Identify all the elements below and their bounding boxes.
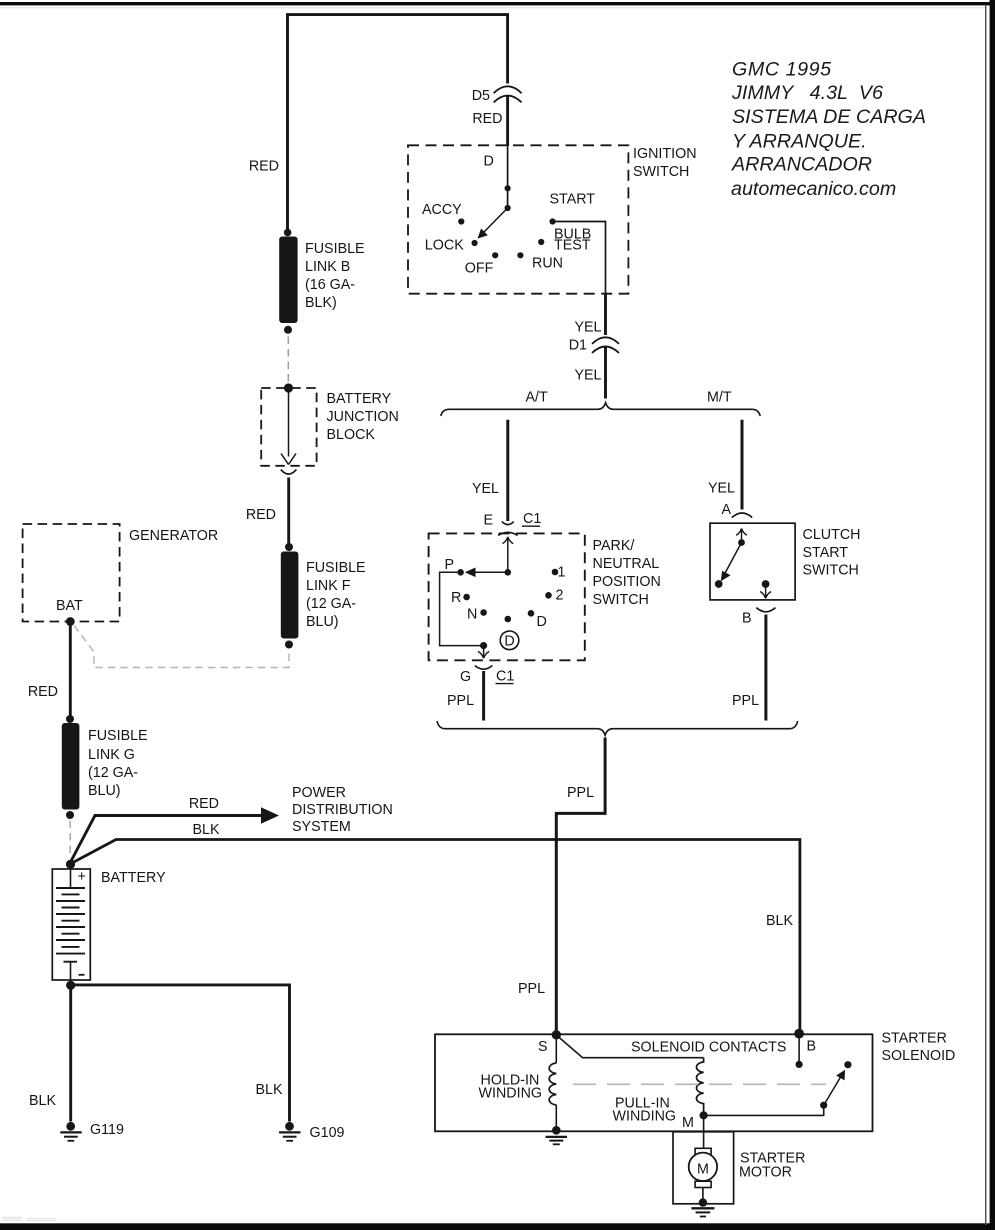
svg-text:YEL: YEL xyxy=(472,481,499,497)
svg-text:PPL: PPL xyxy=(567,785,594,801)
wire: feed inside ignition switch xyxy=(507,146,509,208)
svg-text:BLK): BLK) xyxy=(305,295,337,311)
wire: P contact to output xyxy=(440,572,484,645)
label BATTERY JUNCTION BLOCK xyxy=(327,391,399,443)
label FUSIBLE LINK G (12 GA-BLU) xyxy=(88,728,148,799)
svg-text:POWER: POWER xyxy=(292,785,346,801)
svg-text:G109: G109 xyxy=(310,1125,345,1141)
contact ACCY xyxy=(458,218,464,224)
svg-text:A/T: A/T xyxy=(526,390,549,406)
connector D5 (inline connector symbol) xyxy=(494,86,522,102)
header text xyxy=(731,59,926,201)
merge brace xyxy=(437,721,798,735)
fusible link B xyxy=(279,229,297,334)
svg-text:(16 GA-: (16 GA- xyxy=(305,277,355,293)
svg-text:D1: D1 xyxy=(569,338,587,354)
connector A xyxy=(732,513,752,518)
svg-text:P: P xyxy=(445,557,455,573)
svg-text:DISTRIBUTION: DISTRIBUTION xyxy=(292,802,393,818)
svg-text:(12 GA-: (12 GA- xyxy=(306,596,356,612)
svg-text:automecanico.com: automecanico.com xyxy=(731,178,896,200)
svg-text:BLK: BLK xyxy=(766,913,793,929)
contact OFF xyxy=(492,252,498,258)
svg-text:B: B xyxy=(807,1039,817,1055)
label PARK/NEUTRAL POSITION SWITCH xyxy=(593,538,661,608)
svg-text:C1: C1 xyxy=(496,669,514,685)
svg-text:PPL: PPL xyxy=(518,981,545,997)
clutch start switch xyxy=(710,523,795,600)
svg-text:G119: G119 xyxy=(90,1122,124,1138)
svg-text:C1: C1 xyxy=(523,511,541,527)
svg-text:POSITION: POSITION xyxy=(593,574,661,590)
svg-text:FUSIBLE: FUSIBLE xyxy=(88,728,148,744)
svg-text:SWITCH: SWITCH xyxy=(633,164,689,180)
svg-text:TEST: TEST xyxy=(554,238,591,254)
label CLUTCH START SWITCH xyxy=(803,527,861,579)
wire: M/T branch YEL xyxy=(741,420,744,510)
fusible link G xyxy=(62,715,80,819)
wire: E feed down to junction xyxy=(507,538,509,572)
svg-text:M: M xyxy=(697,1162,709,1178)
svg-text:ARRANCADOR: ARRANCADOR xyxy=(731,153,872,175)
hold-in winding coil xyxy=(549,1063,556,1105)
label C1 (top, underlined) xyxy=(522,511,541,527)
svg-text:YEL: YEL xyxy=(574,368,601,384)
connector E/C1 xyxy=(498,522,518,544)
svg-text:BLK: BLK xyxy=(29,1093,56,1109)
wire: hold-in winding to ground xyxy=(555,1105,557,1129)
fusible link F xyxy=(281,543,299,649)
svg-text:BLU): BLU) xyxy=(306,614,339,630)
connector D1 xyxy=(592,337,619,353)
wire: D5 to ignition switch xyxy=(506,96,509,147)
wire (dashed) link B to battery junction block xyxy=(287,337,289,384)
wire: RED to power distribution system (with arrowhead) xyxy=(71,816,262,862)
svg-text:BLK: BLK xyxy=(256,1082,283,1098)
svg-text:PARK/: PARK/ xyxy=(593,538,635,554)
svg-text:WINDING: WINDING xyxy=(479,1086,543,1102)
connector G/C1 xyxy=(475,666,493,670)
solenoid moving contact arm xyxy=(704,1061,852,1115)
label PULL-IN WINDING xyxy=(613,1096,677,1125)
svg-text:RED: RED xyxy=(472,111,502,127)
svg-text:E: E xyxy=(483,513,493,529)
contact D xyxy=(528,610,535,617)
svg-text:BLOCK: BLOCK xyxy=(327,427,376,443)
contact START xyxy=(550,218,556,224)
svg-text:S: S xyxy=(538,1039,548,1055)
svg-text:SOLENOID CONTACTS: SOLENOID CONTACTS xyxy=(631,1040,786,1056)
contact R xyxy=(463,594,470,601)
battery xyxy=(52,860,90,990)
dashed plunger line xyxy=(573,1083,826,1085)
svg-text:CLUTCH: CLUTCH xyxy=(803,527,861,543)
svg-text:JIMMY 4.3L V6: JIMMY 4.3L V6 xyxy=(731,82,883,104)
wire arrow to P contact xyxy=(469,571,508,573)
svg-text:2: 2 xyxy=(556,588,564,604)
wire: START contact out of ignition switch xyxy=(553,222,606,295)
svg-text:JUNCTION: JUNCTION xyxy=(327,409,399,425)
wire: BAT to fusible link G xyxy=(69,622,72,720)
wire: D1 to A/T-M/T split xyxy=(604,347,607,399)
terminal B xyxy=(794,1029,804,1039)
svg-text:R: R xyxy=(451,590,461,606)
svg-text:B: B xyxy=(742,611,752,627)
contact 2 xyxy=(545,592,552,599)
wire: clutch B output PPL xyxy=(764,615,767,721)
label STARTER MOTOR xyxy=(739,1151,805,1181)
svg-text:MOTOR: MOTOR xyxy=(739,1165,792,1181)
svg-text:RED: RED xyxy=(246,507,276,523)
svg-text:M: M xyxy=(682,1115,694,1131)
wire: merged PPL down to solenoid S xyxy=(556,738,605,1032)
starter solenoid xyxy=(435,1034,873,1131)
node on feed wire xyxy=(505,185,511,191)
label HOLD-IN WINDING xyxy=(479,1073,543,1102)
wire: S to hold-in winding xyxy=(555,1035,557,1063)
contact stub from B xyxy=(796,1035,803,1068)
svg-text:+: + xyxy=(78,869,86,885)
wire: ignition to D1 xyxy=(604,294,607,335)
svg-text:LINK B: LINK B xyxy=(305,259,350,275)
svg-text:YEL: YEL xyxy=(574,320,601,336)
svg-text:D: D xyxy=(484,154,494,170)
svg-text:PPL: PPL xyxy=(732,693,759,709)
svg-text:A: A xyxy=(722,502,732,518)
contact 1 xyxy=(552,569,559,576)
svg-text:LINK F: LINK F xyxy=(306,578,351,594)
svg-text:WINDING: WINDING xyxy=(613,1109,677,1125)
svg-text:BAT: BAT xyxy=(56,598,83,614)
connector B xyxy=(756,608,775,612)
wire: battery negative to G119 xyxy=(69,985,72,1121)
svg-text:START: START xyxy=(550,192,596,208)
svg-text:BATTERY: BATTERY xyxy=(327,391,392,407)
svg-text:LOCK: LOCK xyxy=(425,238,464,254)
terminal S xyxy=(552,1030,561,1039)
contact (center) xyxy=(505,616,512,623)
ignition switch xyxy=(408,145,628,293)
svg-text:Y ARRANQUE.: Y ARRANQUE. xyxy=(732,130,867,152)
contact BULB TEST xyxy=(538,239,544,245)
wire (dashed) link G to battery positive xyxy=(69,821,71,858)
starter motor xyxy=(673,1115,734,1203)
svg-text:SYSTEM: SYSTEM xyxy=(292,819,351,835)
svg-text:LINK G: LINK G xyxy=(88,747,135,763)
svg-text:BATTERY: BATTERY xyxy=(101,870,166,886)
svg-text:RED: RED xyxy=(189,796,219,812)
terminal M node xyxy=(700,1111,708,1119)
wire: top RED feed from fusible link B up across to D5 xyxy=(288,15,508,233)
ground G109 xyxy=(279,1122,300,1141)
wire: A/T branch YEL xyxy=(506,420,509,521)
wire: junction block to fusible link F xyxy=(287,478,290,548)
clutch switch B contact with down arrow xyxy=(760,580,771,598)
ignition rotor arm (arrow to LOCK) xyxy=(478,205,511,239)
svg-text:START: START xyxy=(803,545,849,561)
contact N xyxy=(480,609,487,616)
svg-text:GENERATOR: GENERATOR xyxy=(129,528,218,544)
svg-text:N: N xyxy=(467,607,477,623)
svg-text:SISTEMA DE CARGA: SISTEMA DE CARGA xyxy=(732,106,926,128)
battery junction block xyxy=(261,383,316,474)
contact RUN xyxy=(517,252,523,258)
svg-text:PPL: PPL xyxy=(447,693,474,709)
svg-text:BLK: BLK xyxy=(192,822,219,838)
svg-text:FUSIBLE: FUSIBLE xyxy=(306,560,366,576)
wire (dashed) link F to generator BAT terminal xyxy=(74,626,289,668)
pull-in winding coil xyxy=(696,1058,703,1112)
clutch switch arm (arrow up from A) xyxy=(715,529,747,588)
svg-text:(12 GA-: (12 GA- xyxy=(88,765,138,781)
svg-text:IGNITION: IGNITION xyxy=(633,146,697,162)
svg-text:FUSIBLE: FUSIBLE xyxy=(305,241,365,257)
label IGNITION SWITCH xyxy=(633,146,697,180)
label POWER DISTRIBUTION SYSTEM xyxy=(292,785,393,835)
svg-text:BLU): BLU) xyxy=(88,783,121,799)
svg-text:RED: RED xyxy=(28,684,58,700)
ground (starter motor) xyxy=(691,1198,714,1216)
label FUSIBLE LINK B (16 GA-BLK) xyxy=(305,241,365,311)
svg-text:ACCY: ACCY xyxy=(422,202,462,218)
junction node xyxy=(505,569,512,576)
svg-text:GMC 1995: GMC 1995 xyxy=(732,59,832,81)
svg-text:OFF: OFF xyxy=(465,261,494,277)
svg-text:D: D xyxy=(504,634,514,650)
svg-text:D: D xyxy=(537,614,547,630)
park/neutral position switch xyxy=(429,533,585,660)
label STARTER SOLENOID xyxy=(882,1031,956,1065)
generator xyxy=(23,524,120,626)
svg-text:NEUTRAL: NEUTRAL xyxy=(593,556,660,572)
wire: BLK from battery positive to solenoid B xyxy=(71,840,800,1032)
split brace A/T M/T xyxy=(441,403,760,416)
svg-text:RED: RED xyxy=(249,159,279,175)
circled D indicator xyxy=(500,631,519,650)
svg-text:M/T: M/T xyxy=(707,390,732,406)
svg-text:RUN: RUN xyxy=(532,256,563,272)
svg-text:STARTER: STARTER xyxy=(882,1031,947,1047)
output node and down arrow xyxy=(478,642,489,658)
label FUSIBLE LINK F (12 GA-BLU) xyxy=(306,560,366,630)
wire: battery negative to G109 xyxy=(71,985,290,1122)
svg-text:SWITCH: SWITCH xyxy=(593,592,649,608)
svg-text:D5: D5 xyxy=(472,88,490,104)
contact LOCK xyxy=(472,240,478,246)
ground (hold-in winding) xyxy=(546,1126,567,1144)
label C1 (bottom, underlined) xyxy=(496,669,515,685)
wire: G output PPL xyxy=(482,671,485,721)
contact P xyxy=(457,569,464,576)
svg-text:1: 1 xyxy=(558,565,566,581)
svg-text:YEL: YEL xyxy=(708,481,735,497)
ground G119 xyxy=(60,1122,81,1141)
svg-text:G: G xyxy=(460,669,471,685)
wire: S diagonal to pull-in winding xyxy=(556,1035,703,1058)
svg-text:SOLENOID: SOLENOID xyxy=(882,1048,956,1064)
svg-text:SWITCH: SWITCH xyxy=(803,563,859,579)
